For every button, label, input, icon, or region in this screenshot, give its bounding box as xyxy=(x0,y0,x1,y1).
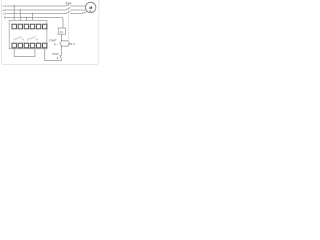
START contact on main line xyxy=(60,41,62,46)
node top of loop xyxy=(61,40,62,41)
wire terminal B6 to STOP bottom xyxy=(45,49,62,61)
wire L3 to motor xyxy=(70,12,87,14)
motor M xyxy=(86,2,96,12)
contact K1.2 xyxy=(68,42,70,46)
device box U1 xyxy=(9,20,47,48)
STOP contact on main line xyxy=(60,55,62,59)
contactor contact K1.1 phase L2 xyxy=(66,8,71,10)
junction dot L2 xyxy=(20,9,22,11)
junction dot L1 xyxy=(13,5,15,7)
svg-text:K1.1: K1.1 xyxy=(66,1,72,5)
terminal T1 xyxy=(12,24,16,29)
terminal T2 xyxy=(18,24,22,29)
terminal T3 xyxy=(24,24,28,29)
wire N bus with corner down to coil xyxy=(6,18,63,29)
START button actuator xyxy=(54,43,56,46)
wire drop L3 to terminal 4 xyxy=(32,14,34,25)
svg-text:STOP: STOP xyxy=(52,53,59,56)
terminal T6 xyxy=(43,24,47,29)
mechanical link dashed xyxy=(67,5,69,41)
wire drop N to terminal 3 xyxy=(25,18,27,25)
wire L1 to motor xyxy=(70,5,86,7)
terminal B4 xyxy=(30,43,34,48)
card frame xyxy=(1,0,98,65)
internal relay contact S2 xyxy=(28,36,38,40)
contactor contact K1.1 phase L3 xyxy=(66,11,71,13)
wire drop L1 to terminal 1 xyxy=(13,6,15,24)
STOP button actuator xyxy=(56,57,58,60)
wire L3 bus xyxy=(6,13,65,15)
wire between contacts xyxy=(60,46,62,55)
svg-text:START: START xyxy=(49,40,57,43)
terminal stubs inside box top xyxy=(14,29,45,30)
terminal squares top row xyxy=(12,24,47,48)
internal relay contact S1 xyxy=(14,36,23,40)
junction dot N xyxy=(26,17,28,19)
wire L1 bus xyxy=(6,5,65,7)
wire L2 bus xyxy=(6,9,65,11)
wire jumper terminal B1 to B5 xyxy=(14,49,35,57)
svg-text:K1.2: K1.2 xyxy=(69,42,75,46)
contactor contact K1.1 phase L1 xyxy=(66,4,71,6)
wire coil to latch loop xyxy=(60,34,62,41)
terminal T5 xyxy=(36,24,40,29)
terminal B3 xyxy=(24,43,28,48)
terminal stubs inside box bottom xyxy=(14,40,37,42)
terminal T4 xyxy=(30,24,34,29)
terminal B5 xyxy=(36,43,40,48)
wire drop L2 to terminal 2 xyxy=(19,10,21,24)
wire L2 to motor xyxy=(70,9,86,11)
terminal B1 xyxy=(12,43,16,48)
svg-text:N: N xyxy=(4,16,6,20)
junction dot L3 xyxy=(32,13,34,15)
latch loop wires xyxy=(61,41,68,46)
terminal B6 xyxy=(43,43,47,48)
node bottom of loop xyxy=(61,46,62,47)
coil K1 xyxy=(58,28,65,34)
svg-text:3~: 3~ xyxy=(89,9,93,13)
terminal B2 xyxy=(18,43,22,48)
